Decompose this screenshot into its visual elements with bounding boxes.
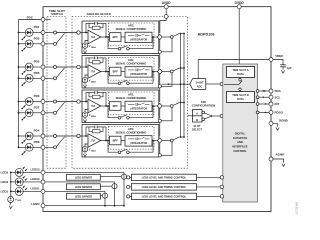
wire PDC into time slot switch bbox=[45, 19, 51, 21]
junction TIA inverting input channel 3 bbox=[85, 101, 87, 103]
svg-text:DIGITAL: DIGITAL bbox=[235, 132, 246, 136]
pin AGND with ground bbox=[269, 153, 285, 167]
pin PD5 bbox=[41, 42, 45, 46]
photodiode PD3 bbox=[18, 94, 41, 109]
svg-text:LGND: LGND bbox=[31, 202, 40, 206]
wire integrator output channel 4 bbox=[152, 140, 158, 142]
svg-text:ANALOG BLOCK: ANALOG BLOCK bbox=[87, 12, 112, 16]
AFE channel 1 box bbox=[82, 21, 159, 54]
contact slot B data bbox=[239, 88, 241, 92]
svg-text:PDSO: PDSO bbox=[275, 111, 284, 115]
LED LED3 bbox=[10, 166, 28, 176]
wire VREF to ADC bbox=[198, 60, 269, 79]
junction LED3 FET source to LGND bbox=[123, 205, 125, 207]
svg-text:SIGNAL CONDITIONING: SIGNAL CONDITIONING bbox=[116, 27, 147, 31]
label ANALOG BLOCK bbox=[87, 12, 112, 16]
bus A vertical segments bbox=[159, 21, 161, 154]
integrator block channel 4 bbox=[125, 136, 152, 146]
feedback network channel 2 (Rf, Cf) bbox=[86, 56, 106, 71]
junction TIA inverting input channel 2 bbox=[85, 66, 87, 68]
label ADPD103 bbox=[197, 33, 214, 37]
svg-text:LED3 DRIVER: LED3 DRIVER bbox=[75, 176, 92, 180]
svg-text:INT: INT bbox=[275, 102, 280, 106]
pin SDA with bidirectional arrow bbox=[256, 89, 281, 93]
svg-text:BPF: BPF bbox=[113, 35, 119, 39]
svg-text:DATAPATH: DATAPATH bbox=[233, 136, 247, 140]
pin PDSO with output arrow bbox=[256, 110, 283, 114]
svg-text:SELECT: SELECT bbox=[192, 127, 203, 131]
pin DGND with ground bbox=[269, 119, 289, 131]
svg-text:PD4: PD4 bbox=[34, 129, 40, 133]
pin VREF bbox=[269, 54, 283, 61]
switch S1b contact (lower) bbox=[45, 42, 57, 45]
svg-text:BPF: BPF bbox=[113, 70, 119, 74]
svg-text:A: A bbox=[196, 111, 198, 115]
switch S3b contact (lower) bbox=[45, 111, 57, 114]
node channel 2 input bbox=[77, 65, 82, 68]
svg-text:LEDX2: LEDX2 bbox=[31, 177, 40, 181]
voltage source VBIAS channel 4 bbox=[82, 144, 96, 157]
node LED1 level control bbox=[127, 195, 132, 198]
chip body ADPD103 outline bbox=[43, 7, 271, 212]
wire slot select to digital block bbox=[211, 114, 224, 117]
register TIME SLOT A DATA bbox=[227, 67, 255, 78]
pin PD2 bbox=[41, 65, 45, 69]
wire integrator output channel 1 bbox=[152, 36, 158, 38]
wire TIA output channel 2 bbox=[101, 71, 110, 73]
wire channel 4 return loop to bus A bbox=[158, 142, 172, 157]
filter BPF channel 1 bbox=[110, 33, 122, 42]
svg-text:DVDD: DVDD bbox=[235, 1, 245, 5]
junction LED1 FET source to LGND bbox=[104, 205, 106, 207]
register TIME SLOT B DATA bbox=[227, 92, 255, 103]
voltage source VBIAS channel 2 bbox=[82, 75, 96, 88]
photodiode PD2 bbox=[18, 60, 41, 75]
switch S4a contact (upper) bbox=[45, 135, 57, 138]
switch channel 3 to ADC bus contact bbox=[162, 105, 173, 108]
pin DVDD bbox=[235, 1, 245, 9]
wire ADC input line bbox=[161, 83, 189, 85]
wire DVDD to digital block bbox=[238, 9, 240, 67]
switch slot A blade bbox=[202, 111, 211, 115]
analog block (dashed) bbox=[72, 17, 188, 169]
label AFE CONFIGURATION bbox=[192, 100, 215, 108]
node diamond channel 4 output bbox=[157, 138, 162, 143]
switch channel 4 blade bbox=[173, 137, 179, 140]
node diamond channel 3 output bbox=[157, 103, 162, 108]
pin PD7 bbox=[41, 111, 45, 115]
svg-text:AVDD: AVDD bbox=[162, 1, 171, 5]
svg-text:TIME SLOT B: TIME SLOT B bbox=[232, 93, 249, 97]
junction TIA inverting input channel 4 bbox=[85, 135, 87, 137]
wire channel 2 return loop to bus A bbox=[158, 73, 172, 88]
svg-text:PD1: PD1 bbox=[34, 25, 40, 29]
pin LEDX1 bbox=[41, 189, 45, 193]
wire channel 4 blade to rails bbox=[180, 136, 185, 138]
switch S1b blade bbox=[56, 33, 64, 43]
node channel 4 input bbox=[77, 134, 82, 137]
wire LED1 control to digital block bbox=[197, 195, 224, 198]
wire ADC output to digital block bbox=[206, 82, 224, 85]
svg-text:SDA: SDA bbox=[275, 89, 282, 93]
AFE signal conditioning box channel 3 (dashed) bbox=[109, 92, 155, 115]
svg-text:SIGNAL CONDITIONING: SIGNAL CONDITIONING bbox=[116, 131, 147, 135]
AFE signal conditioning box channel 4 (dashed) bbox=[109, 127, 155, 150]
pin PD1 bbox=[41, 31, 45, 35]
switch S4b contact (lower) bbox=[45, 146, 57, 149]
LED LED2 bbox=[10, 176, 28, 186]
wire LED2 control to digital block bbox=[197, 185, 224, 188]
switch S3a contact (upper) bbox=[45, 100, 57, 103]
figure number bbox=[295, 201, 299, 214]
photodiode common anode bus bbox=[18, 20, 20, 148]
digital datapath block bbox=[223, 64, 258, 202]
svg-text:LED1 LEVEL AND TIMING CONTROL: LED1 LEVEL AND TIMING CONTROL bbox=[142, 195, 187, 199]
AFE channel 2 box bbox=[82, 56, 159, 89]
svg-text:1µF: 1µF bbox=[287, 66, 292, 70]
photodiode PD6 bbox=[18, 71, 41, 86]
bypass switch path channel 1 bbox=[108, 37, 153, 50]
svg-text:PDC: PDC bbox=[27, 16, 34, 20]
pin LGND bbox=[31, 202, 45, 208]
label LED2 bbox=[1, 180, 9, 184]
integrator block channel 3 bbox=[125, 101, 152, 111]
svg-text:VREF: VREF bbox=[275, 54, 283, 58]
svg-text:LED2 DRIVER: LED2 DRIVER bbox=[75, 185, 92, 189]
photodiode PD8 bbox=[18, 140, 41, 155]
switch channel 1 blade bbox=[173, 34, 179, 37]
block LED1 DRIVER bbox=[67, 193, 101, 199]
svg-text:∫ INTEGRATOR: ∫ INTEGRATOR bbox=[129, 142, 147, 145]
block LED3 DRIVER bbox=[67, 174, 101, 180]
node LED3 level control bbox=[127, 176, 132, 179]
wire into slot select bbox=[188, 115, 193, 117]
svg-text:∫ INTEGRATOR: ∫ INTEGRATOR bbox=[129, 73, 147, 76]
svg-text:LED2 LEVEL AND TIMING CONTROL: LED2 LEVEL AND TIMING CONTROL bbox=[142, 185, 187, 189]
photodiode PD7 bbox=[18, 105, 41, 120]
svg-text:ADC: ADC bbox=[197, 84, 203, 88]
wire PDC to photodiode common bus bbox=[19, 19, 42, 21]
pin PD8 bbox=[41, 145, 45, 149]
wire PD4 to channel 4 input bbox=[57, 135, 77, 137]
wire channel 1 blade to rails bbox=[180, 33, 185, 35]
svg-text:B: B bbox=[196, 118, 198, 122]
integrator block channel 2 bbox=[125, 67, 152, 77]
svg-text:ADPD103: ADPD103 bbox=[197, 33, 214, 37]
ADC bus rail 2 bbox=[183, 34, 185, 138]
svg-text:INTERFACE: INTERFACE bbox=[232, 145, 247, 149]
contact slot A data bbox=[239, 78, 241, 82]
svg-text:SIGNAL CONDITIONING: SIGNAL CONDITIONING bbox=[116, 96, 147, 100]
svg-text:DGND: DGND bbox=[279, 119, 289, 123]
svg-text:DATA: DATA bbox=[237, 97, 244, 101]
wire TIA output channel 1 bbox=[101, 36, 110, 38]
label LED3 bbox=[1, 171, 9, 175]
AFE signal conditioning box channel 2 (dashed) bbox=[109, 58, 155, 81]
svg-text:LED: LED bbox=[17, 200, 21, 202]
junction TIA inverting input channel 1 bbox=[85, 32, 87, 34]
svg-text:DATA: DATA bbox=[237, 72, 244, 76]
pin PDC bbox=[27, 16, 45, 22]
svg-text:∫ INTEGRATOR: ∫ INTEGRATOR bbox=[129, 39, 147, 42]
svg-text:11733-001: 11733-001 bbox=[295, 201, 299, 214]
wire channel 1 return loop to bus A bbox=[158, 38, 172, 53]
pin LEDX3 bbox=[41, 170, 45, 174]
switch S2a contact (upper) bbox=[45, 66, 57, 69]
svg-text:CONTROL: CONTROL bbox=[233, 149, 247, 153]
AFE channel 3 box bbox=[82, 90, 159, 123]
pin SCL with input arrow bbox=[256, 95, 280, 99]
node diamond channel 2 output bbox=[157, 69, 162, 74]
wire LEDX1 inside to driver FET bbox=[45, 190, 105, 192]
pin PD6 bbox=[41, 76, 45, 80]
svg-text:14-BIT: 14-BIT bbox=[195, 80, 204, 84]
wire LED1 cathode to pin bbox=[23, 187, 41, 192]
wire AVDD rail jog to bus A bbox=[160, 18, 166, 33]
block LED2 LEVEL AND TIMING CONTROL bbox=[132, 184, 197, 190]
wire LEDX3 inside to driver FET bbox=[45, 171, 124, 173]
wire LGND bus bbox=[45, 205, 124, 207]
wire TIA output channel 4 bbox=[101, 140, 110, 142]
wire channel 3 blade to rails bbox=[180, 102, 185, 104]
svg-text:PD8: PD8 bbox=[34, 140, 40, 144]
op-amp TIA U2 bbox=[82, 65, 101, 79]
wire LED2 cathode to pin bbox=[23, 177, 41, 182]
svg-text:TIA: TIA bbox=[91, 104, 95, 108]
photodiode PD1 bbox=[18, 25, 41, 40]
switch slot B blade bbox=[202, 116, 211, 120]
svg-text:AFE:: AFE: bbox=[128, 93, 134, 97]
wire ADC data into slot switch bbox=[224, 84, 239, 86]
svg-text:LED2: LED2 bbox=[1, 180, 9, 184]
svg-text:SWITCH: SWITCH bbox=[51, 12, 63, 16]
AFE channel 4 box bbox=[82, 125, 159, 158]
switch S1a contact (upper) bbox=[45, 31, 57, 34]
bypass switch path channel 3 bbox=[108, 106, 153, 119]
svg-text:LED3: LED3 bbox=[1, 171, 9, 175]
svg-text:AFE:: AFE: bbox=[128, 24, 134, 28]
switch S3b blade bbox=[56, 102, 64, 112]
svg-text:LED1 DRIVER: LED1 DRIVER bbox=[75, 195, 92, 199]
svg-text:PD6: PD6 bbox=[34, 71, 40, 75]
bypass switch path channel 2 bbox=[108, 72, 153, 85]
wire channel 3 return loop to bus A bbox=[158, 107, 172, 122]
wire LED3 control to digital block bbox=[197, 176, 224, 179]
ADC bus rail 1 bbox=[180, 34, 182, 138]
capacitor 1uF on VREF bbox=[273, 60, 292, 74]
svg-text:BPF: BPF bbox=[113, 104, 119, 108]
svg-text:CONFIGURATION: CONFIGURATION bbox=[192, 103, 215, 107]
photodiode PD5 bbox=[18, 36, 41, 51]
label TIME SLOT SWITCH bbox=[49, 9, 65, 16]
wire PD3 to channel 3 input bbox=[57, 101, 77, 103]
wire integrator output channel 2 bbox=[152, 71, 158, 73]
switch data slot blade bbox=[239, 81, 242, 85]
wire PD1 to channel 1 input bbox=[57, 32, 77, 34]
filter BPF channel 4 bbox=[110, 136, 122, 145]
svg-text:∫ INTEGRATOR: ∫ INTEGRATOR bbox=[129, 108, 147, 111]
svg-text:TIME SLOT A: TIME SLOT A bbox=[232, 68, 248, 72]
transistor LED3 driver FET bbox=[101, 172, 127, 205]
LED anode bus bbox=[10, 172, 12, 196]
wire BPF to integrator channel 4 bbox=[121, 140, 125, 142]
svg-text:TIA: TIA bbox=[91, 139, 95, 143]
pin PD4 bbox=[41, 134, 45, 138]
integrator block channel 1 bbox=[125, 32, 152, 42]
feedback network channel 4 (Rf, Cf) bbox=[86, 125, 106, 140]
block LED3 LEVEL AND TIMING CONTROL bbox=[132, 174, 197, 180]
wire PD2 to channel 2 input bbox=[57, 66, 77, 68]
svg-text:SIGNAL CONDITIONING: SIGNAL CONDITIONING bbox=[116, 62, 147, 66]
wire BPF to integrator channel 3 bbox=[121, 105, 125, 107]
op-amp TIA U3 bbox=[82, 99, 101, 113]
node channel 1 input bbox=[77, 31, 82, 34]
svg-text:PD5: PD5 bbox=[34, 36, 40, 40]
wire channel 2 blade to rails bbox=[180, 67, 185, 69]
block LED1 LEVEL AND TIMING CONTROL bbox=[132, 193, 197, 199]
pin PD3 bbox=[41, 100, 45, 104]
wire BPF to integrator channel 2 bbox=[121, 71, 125, 73]
voltage source VLED bbox=[8, 197, 22, 209]
switch channel 4 to ADC bus contact bbox=[162, 139, 173, 142]
svg-text:AFE:: AFE: bbox=[128, 58, 134, 62]
svg-text:LEDX1: LEDX1 bbox=[31, 187, 40, 191]
node diamond channel 1 output bbox=[157, 34, 162, 39]
node LED2 level control bbox=[127, 185, 132, 188]
transistor LED2 driver FET bbox=[101, 182, 118, 206]
switch S2b blade bbox=[56, 68, 64, 78]
voltage source VBIAS channel 3 bbox=[82, 110, 96, 123]
label digital datapath and interface control bbox=[232, 132, 247, 153]
svg-text:AGND: AGND bbox=[276, 153, 286, 157]
op-amp TIA U4 bbox=[82, 134, 101, 148]
LED LED1 bbox=[10, 185, 28, 195]
svg-text:SCL: SCL bbox=[275, 95, 281, 99]
svg-text:BIAS: BIAS bbox=[91, 149, 96, 152]
time slot switch block (dashed) bbox=[47, 17, 66, 169]
svg-text:AND: AND bbox=[237, 140, 243, 144]
ADC 14-bit bbox=[190, 79, 206, 90]
junction LED2 FET source to LGND bbox=[114, 205, 116, 207]
feedback network channel 3 (Rf, Cf) bbox=[86, 91, 106, 106]
op-amp TIA U1 bbox=[82, 30, 101, 44]
label LED1 bbox=[1, 190, 9, 194]
svg-text:BIAS: BIAS bbox=[91, 115, 96, 118]
wire integrator output channel 3 bbox=[152, 105, 158, 107]
switch channel 2 to ADC bus contact bbox=[162, 70, 173, 73]
svg-text:TIA: TIA bbox=[91, 70, 95, 74]
svg-text:BIAS: BIAS bbox=[91, 80, 96, 83]
slot select mux A/B bbox=[192, 110, 203, 132]
switch S4b blade bbox=[56, 137, 64, 147]
wire TIA output channel 3 bbox=[101, 105, 110, 107]
wire BPF to integrator channel 1 bbox=[121, 36, 125, 38]
AFE signal conditioning box channel 1 (dashed) bbox=[109, 23, 155, 46]
svg-text:AFE:: AFE: bbox=[128, 127, 134, 131]
switch channel 3 blade bbox=[173, 103, 179, 106]
switch channel 2 blade bbox=[173, 68, 179, 71]
pin AVDD bbox=[162, 1, 171, 9]
svg-text:LED3 LEVEL AND TIMING CONTROL: LED3 LEVEL AND TIMING CONTROL bbox=[142, 176, 187, 180]
svg-text:PD2: PD2 bbox=[34, 60, 40, 64]
block LED2 DRIVER bbox=[67, 184, 101, 190]
switch S2b contact (lower) bbox=[45, 77, 57, 80]
svg-text:BIAS: BIAS bbox=[91, 46, 96, 49]
filter BPF channel 3 bbox=[110, 102, 122, 111]
switch channel 1 to ADC bus contact bbox=[162, 36, 173, 39]
svg-text:PD3: PD3 bbox=[34, 94, 40, 98]
bypass switch path channel 4 bbox=[108, 141, 153, 154]
feedback network channel 1 (Rf, Cf) bbox=[86, 22, 106, 37]
wire LEDX2 inside to driver FET bbox=[45, 181, 115, 183]
svg-text:BPF: BPF bbox=[113, 139, 119, 143]
wire LED3 cathode to pin bbox=[23, 168, 41, 173]
svg-text:LED1: LED1 bbox=[1, 190, 9, 194]
pin INT with output arrow bbox=[256, 102, 279, 106]
svg-text:PD7: PD7 bbox=[34, 105, 40, 109]
photodiode PD4 bbox=[18, 129, 41, 144]
wire AVDD into analog block bbox=[164, 9, 168, 19]
filter BPF channel 2 bbox=[110, 67, 122, 76]
transistor LED1 driver FET bbox=[101, 191, 108, 205]
svg-text:LEDX3: LEDX3 bbox=[31, 168, 40, 172]
svg-text:TIA: TIA bbox=[91, 35, 95, 39]
node channel 3 input bbox=[77, 100, 82, 103]
voltage source VBIAS channel 1 bbox=[82, 41, 96, 54]
pin LEDX2 bbox=[41, 180, 45, 184]
